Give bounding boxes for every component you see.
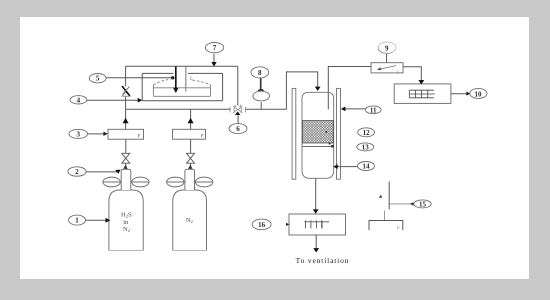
svg-text:10: 10 xyxy=(475,90,483,98)
svg-text:5: 5 xyxy=(96,74,100,82)
svg-text:2: 2 xyxy=(75,168,79,176)
svg-text:4: 4 xyxy=(77,96,81,104)
svg-text:13: 13 xyxy=(362,143,370,151)
svg-text:8: 8 xyxy=(258,69,262,77)
svg-text:F: F xyxy=(201,135,204,140)
svg-text:To ventilation: To ventilation xyxy=(296,256,350,265)
svg-text:in: in xyxy=(123,219,129,226)
svg-text:1: 1 xyxy=(75,217,79,225)
svg-text:3: 3 xyxy=(76,130,80,138)
svg-text:F: F xyxy=(138,135,141,140)
svg-text:14: 14 xyxy=(363,163,371,171)
svg-text:7: 7 xyxy=(213,44,217,52)
svg-text:11: 11 xyxy=(370,106,377,114)
svg-text:15: 15 xyxy=(419,200,427,208)
svg-text:9: 9 xyxy=(385,45,389,53)
svg-text:6: 6 xyxy=(236,125,240,133)
svg-text:12: 12 xyxy=(363,129,371,137)
svg-text:16: 16 xyxy=(258,221,266,229)
